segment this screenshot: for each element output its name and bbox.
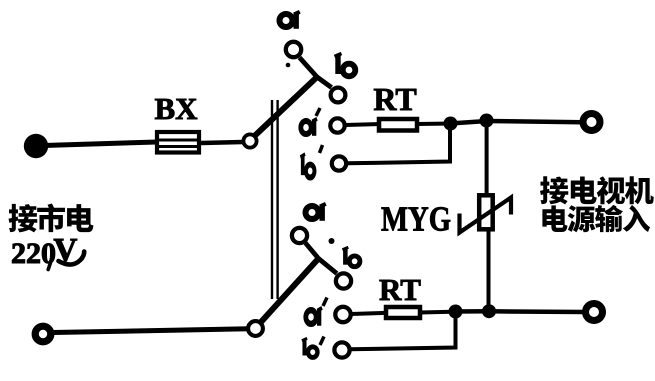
node dot between a and b (bottom) <box>329 238 335 244</box>
junction J1 (top) <box>444 117 458 131</box>
apostrophe of a' (top) <box>316 108 320 116</box>
wire blade fork to contact a (bottom) <box>306 243 319 259</box>
label b (bottom switch) <box>342 247 359 266</box>
fuse BX <box>157 132 199 153</box>
label 220V <box>11 233 78 271</box>
wire T3 to switch pivot <box>53 329 249 333</box>
wire RT to node J1 <box>417 122 452 127</box>
wire a' to RT (bottom) <box>351 313 388 314</box>
wire blade fork to contact b <box>317 77 332 88</box>
terminal T2 (output live) <box>583 114 600 131</box>
svg-text:RT: RT <box>373 81 416 117</box>
switch S1a blade <box>255 77 317 136</box>
wire b' bypass to J1 <box>347 124 450 164</box>
label b' (top) <box>300 154 314 177</box>
varistor MYG diagonal stroke <box>460 198 512 233</box>
svg-text:BX: BX <box>154 91 198 126</box>
terminal T3 (mains neutral input) <box>35 326 51 342</box>
svg-text:MYG: MYG <box>381 200 451 239</box>
wire b' bypass to J3 <box>350 312 456 349</box>
junction J2 (top, varistor tap) <box>480 114 494 128</box>
wire varistor to bottom rail J4 <box>487 229 491 308</box>
label 接电视机 (to TV) line 1 <box>540 176 654 204</box>
wire blade fork to contact a <box>300 58 318 78</box>
contact a' (bottom) <box>335 307 350 322</box>
contact b (bottom switch) <box>336 273 351 288</box>
label b (top switch) <box>335 54 356 77</box>
wire J4 to output terminal T4 <box>489 309 584 314</box>
varistor MYG body <box>479 195 493 229</box>
wire J3 to J4 <box>455 309 490 314</box>
apostrophe of a' (bottom) <box>323 298 327 307</box>
wire blade fork to contact b (bottom) <box>319 259 337 274</box>
contact b' (bottom) <box>334 342 349 357</box>
label a' (top) <box>301 119 317 136</box>
wire BX to switch pivot <box>201 142 243 143</box>
label 接市电 (connect to mains) <box>9 203 94 232</box>
wire J2 down to varistor <box>485 121 489 195</box>
label b' (bottom) <box>302 338 318 357</box>
label a (top switch) <box>280 12 300 29</box>
apostrophe of b' (top) <box>320 145 323 153</box>
contact a' (top) <box>330 118 344 132</box>
switch S1b blade <box>261 259 319 323</box>
terminal T1 (mains live input) <box>24 134 48 158</box>
ganged switch linkage <box>272 100 278 299</box>
apostrophe of b' (bottom) <box>320 337 324 346</box>
contact a (bottom switch) <box>292 228 307 243</box>
contact b' (top) <box>332 156 346 170</box>
switch S1a pivot <box>243 134 256 147</box>
junction J4 (bottom, varistor tap) <box>482 304 496 318</box>
wire a' to RT (top) <box>345 124 381 125</box>
terminal T4 (output neutral) <box>586 304 603 321</box>
wire J2 to output terminal T2 <box>487 121 582 122</box>
label a (bottom switch) <box>306 204 326 221</box>
switch S1b pivot <box>248 321 263 336</box>
descender tail of 0 in 220V <box>48 259 51 270</box>
wire T1 to BX <box>44 142 157 146</box>
wire RT to node J3 <box>420 310 452 315</box>
thermistor RT (bottom) <box>386 307 420 318</box>
node dot between a and b (top) <box>286 63 291 68</box>
junction J3 (bottom) <box>449 305 463 319</box>
label 电源输入 (power input) line 2 <box>542 205 650 232</box>
contact a (top switch) <box>286 42 301 57</box>
contact b (top switch) <box>331 88 346 103</box>
underline flourish of 220V <box>59 252 85 265</box>
label a' (bottom) <box>306 308 322 326</box>
thermistor RT (top) <box>379 119 417 131</box>
wire J1 to J2 <box>450 121 487 124</box>
svg-text:RT: RT <box>379 272 421 307</box>
